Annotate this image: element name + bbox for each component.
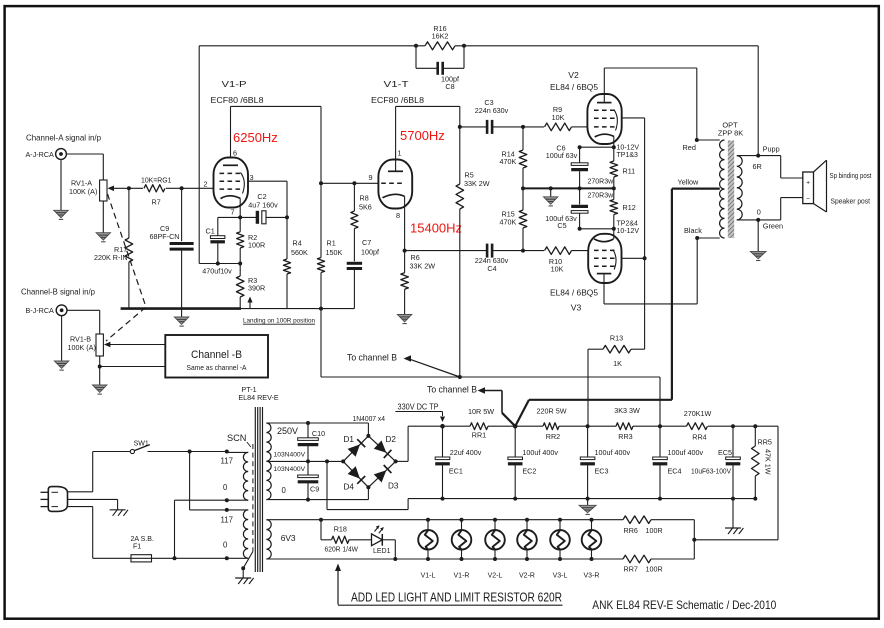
block: Channel-B box bbox=[165, 335, 268, 378]
wire: 470uf10v node bbox=[199, 262, 242, 266]
transformer PT-1 primary winding 2 bbox=[227, 510, 248, 558]
resistor R6 33K 2W bbox=[401, 251, 435, 315]
resistor R11 270R3w bbox=[610, 147, 635, 188]
svg-text:V1-T: V1-T bbox=[384, 79, 410, 89]
label: Channel-B signal in/p bbox=[21, 288, 95, 297]
svg-text:68PF-CN: 68PF-CN bbox=[150, 232, 180, 241]
svg-text:5K6: 5K6 bbox=[359, 203, 372, 212]
svg-text:RR3: RR3 bbox=[618, 432, 632, 441]
svg-text:ANK EL84 REV-E Schematic / Dec: ANK EL84 REV-E Schematic / Dec-2010 bbox=[592, 598, 776, 612]
capacitor C3 224n 630v bbox=[460, 98, 523, 134]
wire: cathode row bbox=[218, 216, 258, 218]
label: To channel B lower arrow bbox=[427, 385, 515, 427]
resistor R2 100R bbox=[237, 217, 266, 263]
wire: live to second 117 tap bbox=[190, 452, 229, 512]
resistor R17 220K R-IN bbox=[94, 188, 133, 308]
svg-text:C5: C5 bbox=[557, 221, 566, 230]
node: C4 right junction bbox=[521, 249, 525, 253]
svg-text:220R 5W: 220R 5W bbox=[537, 407, 567, 416]
wire: mains neutral through fuse bbox=[68, 507, 229, 561]
capacitor EC2 100uf 400v bbox=[508, 426, 558, 498]
label: V1-T pin numbers bbox=[396, 149, 402, 221]
wire: V2 screen to screens rail bbox=[622, 118, 645, 349]
wire: heater bottom bus bbox=[266, 520, 696, 559]
capacitor C9 103N400V (psu) bbox=[298, 461, 320, 499]
node: R16 right junction bbox=[462, 44, 466, 48]
capacitor EC1 22uf 400v bbox=[435, 426, 482, 498]
wire: bridge bottom to 0 bbox=[367, 487, 369, 499]
svg-text:620R 1/4W: 620R 1/4W bbox=[325, 547, 359, 554]
resistor RR2 220R 5W bbox=[537, 407, 567, 442]
svg-text:+: + bbox=[806, 179, 810, 186]
transformer OPT primary coil bbox=[720, 140, 725, 238]
node: R8 top junction bbox=[352, 181, 356, 185]
label: 5700Hz red bbox=[400, 128, 445, 143]
svg-text:250V: 250V bbox=[277, 426, 298, 436]
tube V1-P bbox=[214, 158, 249, 218]
svg-text:103N400V: 103N400V bbox=[274, 466, 306, 473]
svg-text:D3: D3 bbox=[388, 482, 399, 491]
label: title ANK EL84 REV-E Schematic bbox=[592, 598, 776, 612]
connector B-J-RCA jack bbox=[26, 305, 68, 316]
label: 10-12V TP1&3 bbox=[617, 145, 640, 160]
svg-text:EC5: EC5 bbox=[718, 448, 732, 457]
label: 1N4007 x4 bbox=[353, 414, 386, 423]
lamp V2-R bbox=[517, 518, 537, 580]
svg-text:47K 1W: 47K 1W bbox=[764, 449, 773, 475]
wire: V2 cathode row TP1&3 bbox=[578, 145, 616, 149]
capacitor C5 100uf 63v bbox=[545, 188, 588, 229]
wire: V3 cathode row TP2&4 bbox=[578, 227, 616, 231]
resistor RR1 10R 5W bbox=[468, 407, 494, 440]
svg-text:16K2: 16K2 bbox=[432, 32, 449, 41]
wire: OPT secondary Pupp lead bbox=[737, 144, 780, 157]
wire: 250V to bridge top bbox=[308, 423, 368, 436]
ground: chassis mains earth bbox=[110, 510, 128, 516]
svg-text:−: − bbox=[806, 195, 810, 202]
svg-text:117: 117 bbox=[221, 516, 233, 525]
node: V1-P cathode junction bbox=[238, 215, 242, 219]
ground: RV1-A bottom bbox=[96, 201, 110, 242]
svg-text:Black: Black bbox=[684, 226, 702, 235]
svg-text:Pupp: Pupp bbox=[763, 144, 780, 153]
svg-text:100K (A): 100K (A) bbox=[68, 343, 96, 352]
svg-text:R18: R18 bbox=[334, 525, 347, 534]
svg-text:7: 7 bbox=[231, 208, 235, 217]
connector A-J-RCA jack bbox=[26, 149, 67, 160]
wire: mid ground bus bbox=[523, 186, 616, 190]
node: R1 bottom junction bbox=[319, 307, 323, 311]
tube V1-T bbox=[378, 160, 412, 251]
resistor R9 10K bbox=[523, 105, 587, 131]
svg-text:100R: 100R bbox=[248, 241, 265, 250]
resistor R15 470K bbox=[500, 188, 527, 250]
svg-text:Channel-B signal in/p: Channel-B signal in/p bbox=[21, 288, 95, 297]
LED LED1 bbox=[372, 525, 398, 561]
rectifier bridge edges bbox=[341, 434, 397, 489]
svg-text:4u7 160v: 4u7 160v bbox=[248, 201, 278, 210]
svg-text:8: 8 bbox=[396, 211, 400, 220]
svg-text:EL84 / 6BQ5: EL84 / 6BQ5 bbox=[550, 82, 598, 92]
potentiometer RV1-B bbox=[68, 334, 104, 356]
lamp V1-R bbox=[452, 518, 472, 580]
node: R16 left junction bbox=[414, 44, 418, 48]
svg-text:RR5: RR5 bbox=[758, 438, 772, 447]
wire: RV1-A wiper to grid bbox=[108, 186, 214, 192]
svg-text:V1-P: V1-P bbox=[222, 79, 247, 89]
wire: jack B to RV1-B bbox=[67, 310, 100, 334]
svg-text:100uf 63v: 100uf 63v bbox=[546, 151, 578, 160]
node: C3 left junction bbox=[458, 125, 462, 129]
label: ADD LED LIGHT note bbox=[335, 564, 563, 606]
svg-text:Red: Red bbox=[683, 143, 696, 152]
svg-text:ZPP 8K: ZPP 8K bbox=[718, 129, 743, 138]
svg-text:V3-L: V3-L bbox=[553, 573, 568, 580]
svg-text:0: 0 bbox=[757, 208, 761, 217]
label: 270R3w values bbox=[588, 178, 615, 199]
svg-text:270R3w: 270R3w bbox=[588, 178, 615, 185]
label: V1-P pin numbers bbox=[204, 149, 254, 217]
svg-text:100pf: 100pf bbox=[361, 248, 379, 257]
svg-text:Speaker post: Speaker post bbox=[831, 197, 871, 206]
transformer PT-1 core bbox=[255, 407, 262, 572]
wire: secondary minus to speaker bbox=[758, 198, 803, 220]
label: PT-1 EL84 REV-E bbox=[238, 385, 279, 402]
wire: OPT yellow centre tap bbox=[672, 178, 720, 189]
svg-text:EC3: EC3 bbox=[595, 467, 609, 476]
wire: RV1-B bottom bbox=[98, 356, 166, 385]
resistor RR6 100R bbox=[623, 516, 663, 535]
svg-text:100uf 400v: 100uf 400v bbox=[668, 448, 704, 457]
svg-text:22uf 400v: 22uf 400v bbox=[450, 448, 482, 457]
svg-text:C4: C4 bbox=[487, 264, 496, 273]
wire: ganged pot dashed link bbox=[106, 194, 146, 341]
wire: B+ thick feed to OPT centre tap bbox=[515, 189, 672, 427]
svg-text:Sp binding post: Sp binding post bbox=[830, 171, 872, 180]
svg-text:RR4: RR4 bbox=[692, 433, 706, 442]
svg-text:Channel-A signal in/p: Channel-A signal in/p bbox=[26, 134, 101, 143]
capacitor EC4 100uf 400v bbox=[653, 426, 704, 498]
svg-text:2A S.B.: 2A S.B. bbox=[131, 536, 154, 543]
resistor RR4 270K1W bbox=[684, 409, 712, 442]
svg-text:ECF80 /6BL8: ECF80 /6BL8 bbox=[211, 95, 264, 105]
svg-text:10K: 10K bbox=[551, 265, 564, 274]
wire: OPT red lead bbox=[683, 138, 720, 152]
wire: V1-T grid line (pin 9) bbox=[321, 173, 378, 183]
wire: B+ rail bbox=[408, 425, 778, 427]
svg-text:6R: 6R bbox=[753, 162, 762, 171]
wire: OPT black lead bbox=[684, 226, 720, 240]
svg-text:R11: R11 bbox=[623, 167, 636, 176]
svg-text:D4: D4 bbox=[344, 483, 355, 492]
label: V3 tube name bbox=[550, 288, 598, 313]
svg-text:V2: V2 bbox=[568, 70, 579, 80]
svg-text:270R3w: 270R3w bbox=[588, 193, 615, 200]
node: C6 bottom on bus bbox=[578, 186, 582, 190]
node: C9 bottom junction bbox=[306, 498, 310, 502]
svg-text:V3-R: V3-R bbox=[584, 573, 600, 580]
svg-text:RR6: RR6 bbox=[624, 526, 638, 535]
svg-text:B-J-RCA: B-J-RCA bbox=[26, 306, 55, 315]
svg-text:1: 1 bbox=[398, 149, 402, 158]
ground: RV1-B bottom bbox=[93, 385, 107, 394]
svg-text:Landing on 100R position: Landing on 100R position bbox=[243, 318, 315, 325]
svg-text:100R: 100R bbox=[646, 565, 663, 574]
resistor R16 bbox=[425, 24, 455, 50]
svg-text:6: 6 bbox=[233, 149, 237, 158]
svg-text:6V3: 6V3 bbox=[281, 533, 296, 543]
wire: V1-T cathode row bbox=[403, 249, 488, 253]
svg-text:3K3 3W: 3K3 3W bbox=[614, 406, 640, 415]
svg-text:10-12V: 10-12V bbox=[617, 145, 640, 152]
svg-text:6250Hz: 6250Hz bbox=[233, 130, 278, 145]
svg-text:V3: V3 bbox=[571, 303, 582, 313]
capacitor EC3 100uf 400v bbox=[580, 426, 630, 498]
label: Landing on 100R position + arrow bbox=[243, 297, 315, 325]
label: V1-T tube name bbox=[371, 79, 424, 105]
transformer OPT secondary coil bbox=[737, 156, 742, 220]
lamp V3-L bbox=[550, 518, 570, 580]
wire: global feedback line top bbox=[199, 46, 758, 264]
svg-text:9: 9 bbox=[369, 173, 373, 182]
svg-text:C10: C10 bbox=[312, 429, 325, 438]
resistor R13 1K bbox=[588, 334, 645, 427]
wire: mains earth bbox=[68, 499, 118, 509]
svg-text:10K=RG1: 10K=RG1 bbox=[141, 177, 172, 184]
label: 6250Hz red bbox=[233, 130, 278, 145]
svg-text:0: 0 bbox=[223, 483, 228, 492]
svg-text:15400Hz: 15400Hz bbox=[410, 221, 462, 236]
svg-text:RR2: RR2 bbox=[546, 432, 560, 441]
svg-text:10uF63-100V: 10uF63-100V bbox=[691, 467, 731, 476]
svg-text:Same as channel -A: Same as channel -A bbox=[187, 363, 247, 372]
node: rail junctions bbox=[440, 424, 757, 429]
node: C10 top junction bbox=[306, 421, 310, 425]
lamp V3-R bbox=[582, 518, 602, 580]
node: grid side junction bbox=[180, 186, 184, 190]
svg-text:V2-R: V2-R bbox=[519, 573, 535, 580]
diode D3 bbox=[374, 465, 399, 491]
svg-text:270K1W: 270K1W bbox=[684, 409, 712, 418]
svg-text:C8: C8 bbox=[445, 82, 454, 91]
diode D2 bbox=[374, 435, 397, 458]
wire: OPT secondary 0/Green lead bbox=[737, 218, 783, 231]
label: V1-P tube name bbox=[211, 79, 264, 105]
svg-text:10R 5W: 10R 5W bbox=[468, 407, 494, 416]
potentiometer RV1-A bbox=[69, 179, 107, 202]
svg-text:F1: F1 bbox=[133, 544, 141, 551]
svg-text:EC4: EC4 bbox=[668, 467, 682, 476]
wire: RV1-B wiper to channel B box bbox=[104, 342, 165, 348]
svg-text:LED1: LED1 bbox=[373, 548, 391, 555]
capacitor C1 470uf10v bbox=[202, 217, 232, 275]
resistor RR7 100R bbox=[623, 555, 663, 573]
svg-text:470K: 470K bbox=[500, 218, 517, 227]
node: ground bus junctions bbox=[441, 497, 758, 501]
svg-text:To channel B: To channel B bbox=[347, 353, 397, 363]
svg-text:390R: 390R bbox=[248, 284, 265, 293]
label: 330V DC TP bbox=[395, 403, 445, 422]
diode D4 bbox=[344, 466, 366, 491]
ground: input bus bbox=[174, 309, 188, 327]
ground: jack B bbox=[54, 316, 68, 370]
node: mid bus left junction bbox=[521, 186, 525, 190]
svg-text:Channel -B: Channel -B bbox=[191, 349, 242, 361]
connector mains plug bbox=[41, 487, 68, 512]
svg-text:RR1: RR1 bbox=[472, 431, 486, 440]
svg-text:C1: C1 bbox=[206, 227, 215, 236]
svg-text:A-J-RCA: A-J-RCA bbox=[26, 150, 55, 159]
svg-text:V1-R: V1-R bbox=[454, 573, 470, 580]
svg-text:5700Hz: 5700Hz bbox=[400, 128, 445, 143]
node: C10/C9 centre junction bbox=[306, 459, 329, 463]
svg-text:33K 2W: 33K 2W bbox=[464, 179, 490, 188]
wire: V3 plate to OPT black bbox=[604, 238, 697, 304]
speaker bbox=[803, 160, 827, 212]
wire: PSU ground bus bbox=[327, 461, 755, 509]
capacitor C8 bbox=[416, 46, 464, 91]
wire: R1 bottom to To-channel-B rail bbox=[320, 309, 322, 377]
capacitor C6 100uf 63v bbox=[546, 144, 588, 189]
resistor R12 270R3w bbox=[610, 188, 636, 228]
capacitor C9 68PF-CN bbox=[150, 188, 194, 308]
svg-text:2: 2 bbox=[204, 180, 208, 189]
wire: V2 plate to OPT red bbox=[604, 68, 697, 140]
node: C2 right / R4 junction bbox=[285, 215, 289, 219]
svg-text:R12: R12 bbox=[623, 203, 636, 212]
capacitor C7 100pf bbox=[347, 238, 379, 309]
label: speaker posts bbox=[830, 171, 872, 206]
ground: OPT secondary bbox=[750, 220, 766, 261]
svg-text:10K: 10K bbox=[552, 113, 565, 122]
lamp V2-L bbox=[485, 518, 505, 580]
label: primary taps bbox=[221, 457, 233, 550]
wire: mains live to SW1 bbox=[68, 452, 93, 492]
diode D1 bbox=[344, 435, 366, 457]
svg-text:470K: 470K bbox=[500, 157, 517, 166]
resistor R5 33K 2W bbox=[456, 127, 490, 377]
svg-text:150K: 150K bbox=[326, 248, 343, 257]
ground: mid bus bbox=[544, 186, 558, 206]
resistor R7 10K=RG1 bbox=[141, 177, 172, 206]
wire: V1-P plate to R1 top bbox=[231, 106, 322, 183]
transformer OPT core bbox=[728, 141, 734, 239]
label: OPT ZPP 8K bbox=[718, 121, 743, 138]
transformer PT-1 heater winding 6V3 bbox=[266, 520, 296, 559]
svg-text:V1-L: V1-L bbox=[421, 573, 436, 580]
svg-text:560K: 560K bbox=[291, 248, 308, 257]
svg-text:470uf10v: 470uf10v bbox=[202, 267, 232, 276]
svg-text:ECF80 /6BL8: ECF80 /6BL8 bbox=[371, 95, 424, 105]
label: 15400Hz red bbox=[410, 221, 462, 236]
svg-text:R4: R4 bbox=[293, 239, 302, 248]
svg-text:C9: C9 bbox=[310, 485, 319, 494]
svg-text:0: 0 bbox=[223, 541, 228, 550]
svg-text:103N400V: 103N400V bbox=[274, 451, 306, 458]
label: Channel-A signal in/p bbox=[26, 134, 101, 143]
resistor RR5 47K 1W bbox=[752, 426, 773, 498]
resistor R8 5K6 bbox=[351, 183, 372, 261]
tube V3 bbox=[588, 229, 621, 283]
wire: front-end B+ line bbox=[321, 375, 660, 426]
svg-text:TP1&3: TP1&3 bbox=[617, 152, 639, 159]
svg-text:C7: C7 bbox=[362, 238, 371, 247]
label: TP2&4 10-12V bbox=[617, 221, 640, 236]
label: 6R and 0 taps bbox=[753, 162, 762, 217]
svg-text:100uf 400v: 100uf 400v bbox=[522, 448, 558, 457]
resistor R1 150K bbox=[317, 183, 342, 308]
svg-text:1K: 1K bbox=[613, 359, 622, 368]
node: R1 plate junction bbox=[319, 181, 323, 185]
svg-text:1N4007 x4: 1N4007 x4 bbox=[353, 414, 386, 423]
wire: input ground bus bbox=[121, 307, 355, 310]
svg-text:R13: R13 bbox=[610, 334, 623, 343]
svg-text:R1: R1 bbox=[327, 239, 336, 248]
node: wiper junction bbox=[127, 186, 131, 190]
resistor R4 560K bbox=[283, 217, 308, 308]
transformer PT-1 primary winding 1 bbox=[227, 452, 248, 500]
svg-text:ADD LED LIGHT AND LIMIT RESIST: ADD LED LIGHT AND LIMIT RESISTOR 620R bbox=[351, 590, 562, 605]
ground: chassis at EC5 bbox=[725, 499, 743, 534]
transformer PT-1 screen SCN bbox=[227, 433, 254, 584]
lamp V1-L bbox=[418, 518, 438, 580]
wire: V1-T plate to C3 node bbox=[396, 106, 460, 159]
svg-text:R8: R8 bbox=[360, 194, 369, 203]
svg-text:330V DC TP: 330V DC TP bbox=[398, 403, 439, 412]
resistor R10 10K bbox=[523, 247, 588, 274]
wire: V3 screen to screens rail bbox=[622, 256, 647, 260]
svg-text:10-12V: 10-12V bbox=[617, 228, 640, 235]
svg-text:Yellow: Yellow bbox=[678, 178, 700, 187]
wire: heater top bus bbox=[266, 519, 694, 521]
svg-text:100R: 100R bbox=[646, 526, 663, 535]
resistor R18 620R 1/4W bbox=[319, 518, 372, 554]
ground: R6 bbox=[397, 315, 411, 324]
svg-text:SW1: SW1 bbox=[134, 440, 149, 447]
svg-text:EC2: EC2 bbox=[522, 467, 536, 476]
label: V2 tube name bbox=[550, 70, 598, 92]
node: SW1 wire junctions bbox=[188, 450, 229, 454]
capacitor C4 224n 630v bbox=[475, 244, 523, 273]
label: To channel B upper arrow bbox=[347, 353, 460, 378]
transformer PT-1 HV secondary bbox=[266, 423, 368, 500]
svg-text:224n 630v: 224n 630v bbox=[475, 106, 509, 115]
ground: EC3 bottom bbox=[579, 499, 596, 515]
node: C3 right junction bbox=[521, 125, 525, 129]
svg-text:EL84 / 6BQ5: EL84 / 6BQ5 bbox=[550, 288, 598, 298]
resistor RR3 3K3 3W bbox=[614, 406, 640, 441]
resistor R3 390R bbox=[236, 264, 265, 309]
wire: secondary plus to speaker bbox=[758, 156, 803, 178]
ground: jack A bbox=[54, 159, 68, 219]
tube V2 bbox=[587, 94, 621, 147]
svg-text:D1: D1 bbox=[344, 435, 355, 444]
fuse F1 2A S.B. bbox=[131, 536, 154, 562]
svg-text:117: 117 bbox=[221, 457, 233, 466]
wire: V1-P pin3 to C2/R4 node bbox=[248, 181, 287, 217]
svg-text:R7: R7 bbox=[152, 198, 161, 207]
wire: jack A to RV1-A bbox=[66, 154, 103, 180]
resistor R14 470K bbox=[500, 127, 527, 188]
svg-text:TP2&4: TP2&4 bbox=[617, 221, 639, 228]
wire: 0 taps parallel link bbox=[175, 498, 229, 558]
svg-text:100uf 400v: 100uf 400v bbox=[595, 448, 631, 457]
svg-text:D2: D2 bbox=[386, 435, 397, 444]
switch SW1 bbox=[93, 440, 227, 453]
svg-text:Green: Green bbox=[763, 222, 783, 231]
svg-text:EL84 REV-E: EL84 REV-E bbox=[238, 393, 279, 402]
svg-text:0: 0 bbox=[282, 486, 287, 495]
